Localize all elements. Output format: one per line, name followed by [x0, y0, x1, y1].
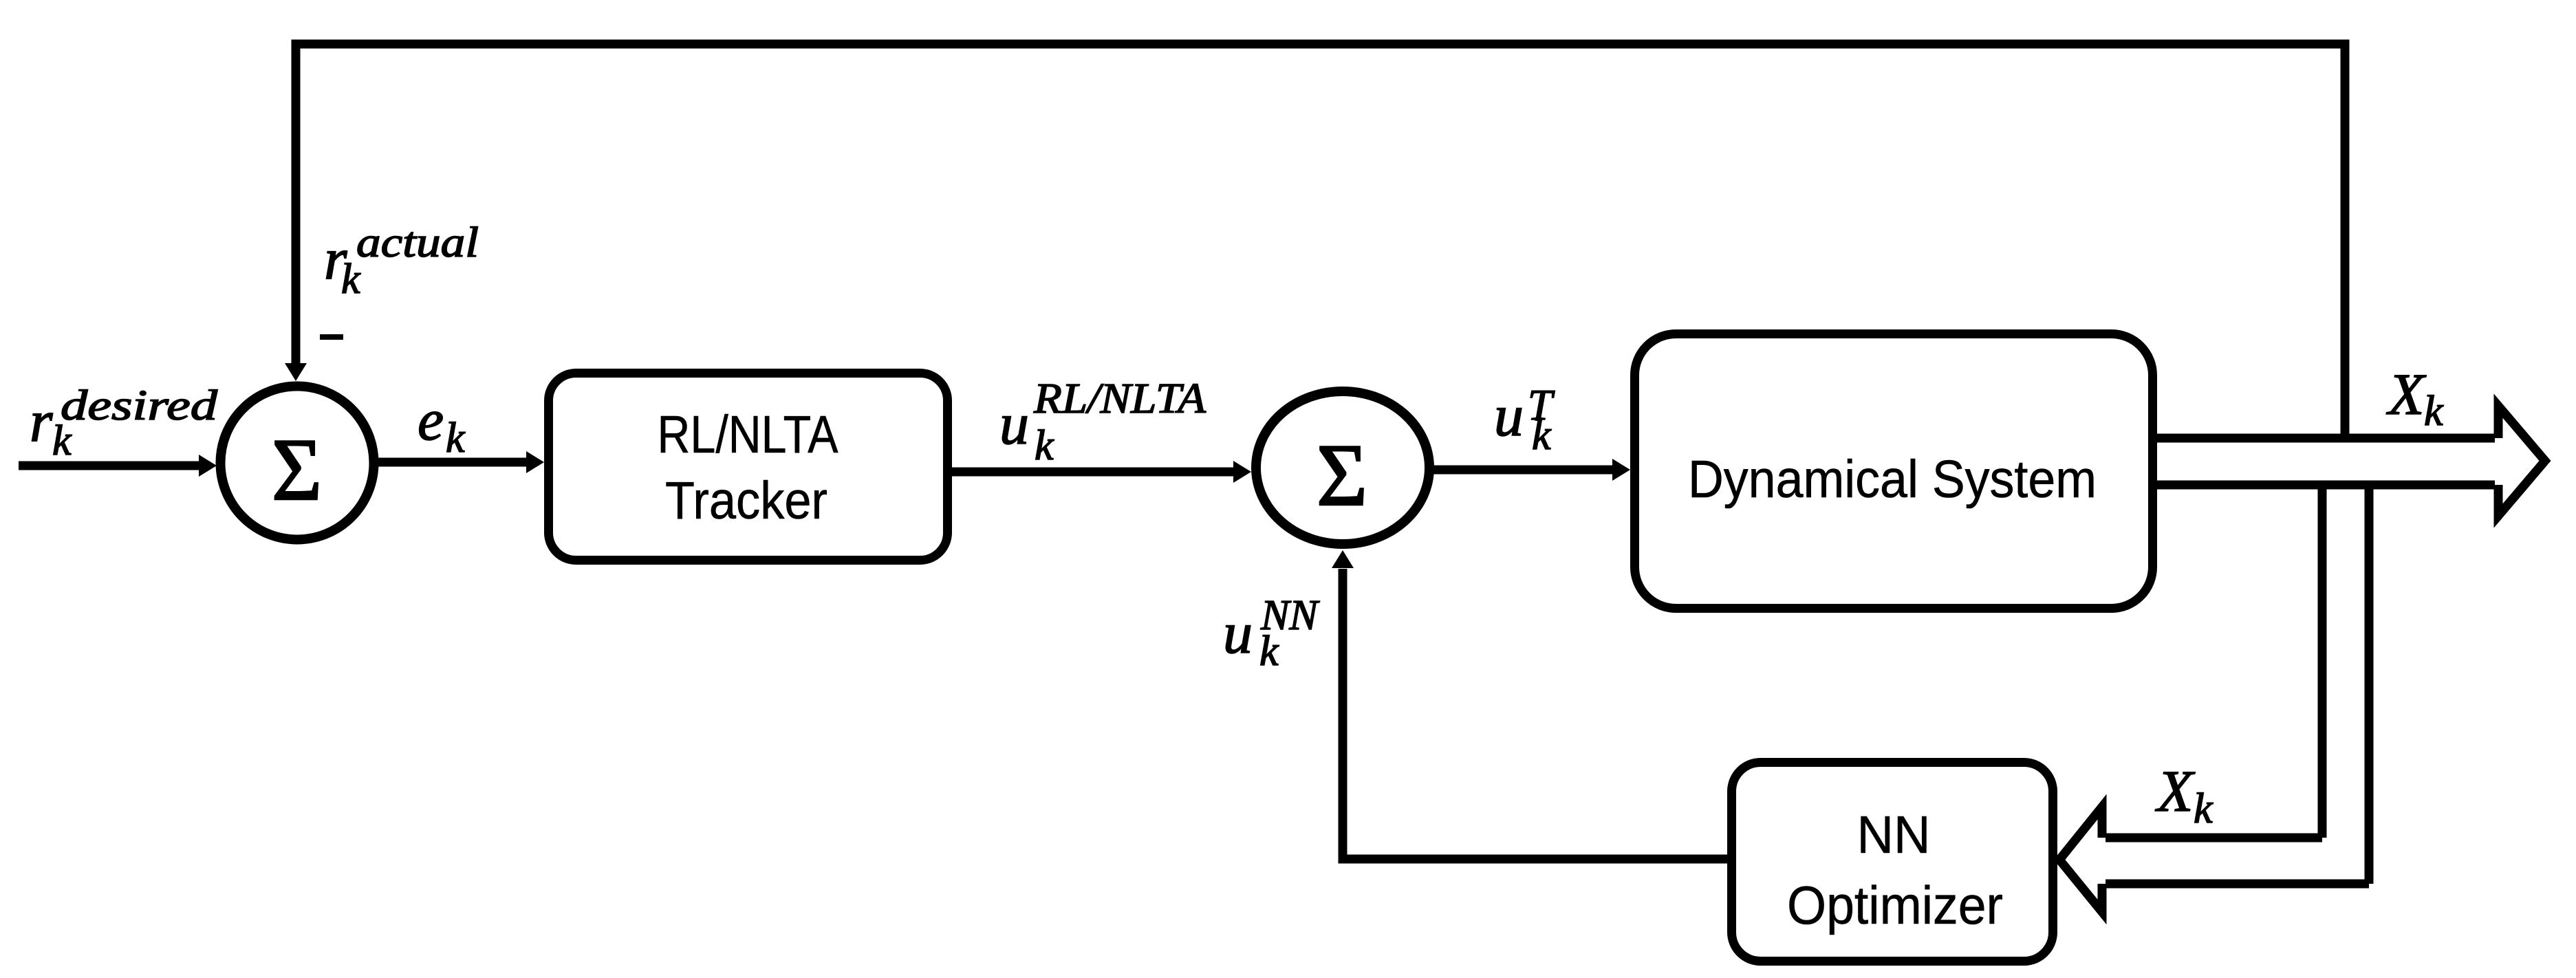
svg-text:NN: NN — [1260, 592, 1320, 639]
svg-text:desired: desired — [61, 382, 218, 429]
svg-text:Tracker: Tracker — [665, 471, 827, 530]
label u_k^T — [1494, 380, 1555, 459]
svg-text:k: k — [2424, 388, 2444, 435]
label X_k output top — [2386, 361, 2444, 435]
label r_k^desired — [30, 382, 218, 464]
wire: input r_k desired — [19, 461, 201, 470]
svg-text:RL/NLTA: RL/NLTA — [658, 405, 839, 464]
svg-text:u: u — [1494, 382, 1524, 448]
svg-text:k: k — [1035, 422, 1054, 469]
wire: u_k^NN from NN optimizer to S2 bottom — [1343, 569, 1729, 859]
hollow arrowhead into NN optimizer — [2059, 807, 2102, 912]
label u_k^NN — [1223, 592, 1320, 675]
svg-text:r: r — [30, 388, 53, 454]
summing junction S2 ellipse — [1256, 391, 1429, 544]
arrowhead input into S1 left — [199, 455, 217, 477]
svg-text:u: u — [1223, 600, 1253, 666]
wire: u_k RL/NLTA from tracker to S2 — [951, 468, 1235, 477]
svg-text:Σ: Σ — [272, 420, 322, 519]
wire: u_k^T from S2 to dynamical system — [1433, 466, 1614, 475]
block: RL/NLTA Tracker box — [549, 373, 948, 561]
svg-text:Σ: Σ — [1317, 426, 1367, 524]
arrowhead into S1 top — [285, 363, 307, 381]
minus sign at S1 — [320, 334, 343, 340]
wire: top feedback path r_k actual — [296, 44, 2345, 440]
svg-text:e: e — [418, 387, 444, 453]
wire: hollow connector left vertical from X_k arrow down — [2318, 485, 2327, 838]
summing junction S1 circle — [221, 387, 374, 540]
svg-text:Dynamical System: Dynamical System — [1688, 450, 2097, 509]
wire: e_k from S1 to tracker — [377, 458, 528, 467]
svg-text:actual: actual — [356, 219, 479, 266]
svg-text:u: u — [999, 391, 1029, 457]
svg-text:k: k — [2194, 785, 2214, 832]
arrowhead u_k^NN into S2 bottom — [1332, 550, 1354, 568]
wire: hollow connector right vertical — [2365, 485, 2374, 884]
arrowhead into dynamical system — [1612, 459, 1630, 481]
label e_k — [418, 387, 466, 461]
block: Dynamical System box — [1635, 334, 2153, 609]
svg-text:Optimizer: Optimizer — [1787, 875, 2003, 935]
svg-text:RL/NLTA: RL/NLTA — [1033, 376, 1206, 422]
svg-text:NN: NN — [1857, 805, 1931, 865]
svg-text:X: X — [2386, 361, 2427, 427]
label X_k into NN optimizer — [2155, 758, 2214, 832]
label r_k^actual — [324, 219, 479, 303]
svg-text:T: T — [1528, 380, 1555, 429]
block: NN Optimizer box — [1732, 763, 2053, 961]
block arrow X_k: bottom shaft line — [2157, 481, 2495, 490]
wire: hollow connector bottom shaft — [2106, 880, 2369, 889]
block arrow X_k: top shaft line — [2157, 434, 2495, 443]
arrowhead e_k into tracker — [526, 451, 544, 473]
arrowhead into S2 left — [1233, 461, 1251, 483]
label u_k^RL/NLTA — [999, 376, 1206, 469]
svg-text:k: k — [446, 415, 466, 461]
svg-text:X: X — [2155, 758, 2196, 824]
block arrow X_k: hollow head — [2498, 406, 2545, 516]
wire: hollow connector top shaft to NN optimizer — [2106, 834, 2322, 843]
